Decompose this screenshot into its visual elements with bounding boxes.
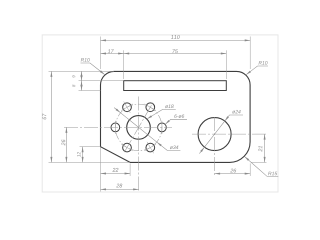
leader R15 [244, 156, 279, 177]
ext slot top left [79, 80, 124, 82]
dim 22 [101, 168, 131, 175]
ext top edge left [49, 70, 115, 72]
leader D24 diameter line [199, 110, 243, 154]
dim 110 [101, 35, 251, 41]
pattern horizontal centerline [64, 126, 172, 128]
extension lines [49, 37, 267, 192]
big hole D24 [198, 118, 231, 151]
dim 26 left [61, 127, 67, 162]
bolt circle D34 centerline [115, 104, 162, 151]
bolt hole 180deg [111, 123, 120, 132]
leader 6-D6 [164, 114, 187, 125]
dim 26 bottom right [215, 169, 251, 175]
big hole vertical centerline [214, 117, 216, 176]
ext right edge bottom [249, 164, 251, 177]
dim 67 [42, 71, 52, 162]
ext chamfer start left [80, 146, 101, 148]
dim 8 slot height [72, 81, 82, 91]
small hole tick marks [115, 102, 162, 154]
leader D18 [146, 105, 175, 120]
leader R10 top-left [81, 58, 106, 75]
bolt hole 0deg [158, 123, 167, 132]
bolt hole 300deg [146, 143, 155, 152]
big hole horizontal centerline [192, 133, 267, 135]
ext chamfer end bottom [129, 164, 131, 177]
ext left edge bottom [100, 148, 102, 192]
dim 21 [258, 134, 265, 162]
slot window [124, 81, 227, 91]
ext bottom edge left [49, 161, 131, 163]
leader D34 diameter line [114, 108, 180, 151]
ext bottom edge right [251, 161, 266, 163]
ext slot left top [123, 50, 125, 79]
ext slot right top [225, 50, 227, 79]
ext right edge top [249, 37, 251, 70]
dim 75 [124, 49, 227, 54]
ext slot bottom left [79, 90, 101, 92]
pattern diagonal centerline 60-240 [124, 103, 152, 152]
bolt hole 60deg [146, 103, 155, 112]
drawing frame [42, 35, 278, 192]
bolt hole 120deg [123, 103, 132, 112]
center hole D18 [127, 116, 151, 140]
pattern vertical centerline [138, 97, 140, 192]
bolt hole 240deg [123, 143, 132, 152]
dim 17 [101, 49, 124, 54]
leader R10 top-right [245, 61, 268, 75]
dim 9 slot offset [72, 71, 82, 80]
dim 28 [101, 184, 139, 191]
plate outline [101, 71, 251, 162]
dim 12 [77, 147, 83, 163]
ext left edge top [100, 37, 102, 70]
